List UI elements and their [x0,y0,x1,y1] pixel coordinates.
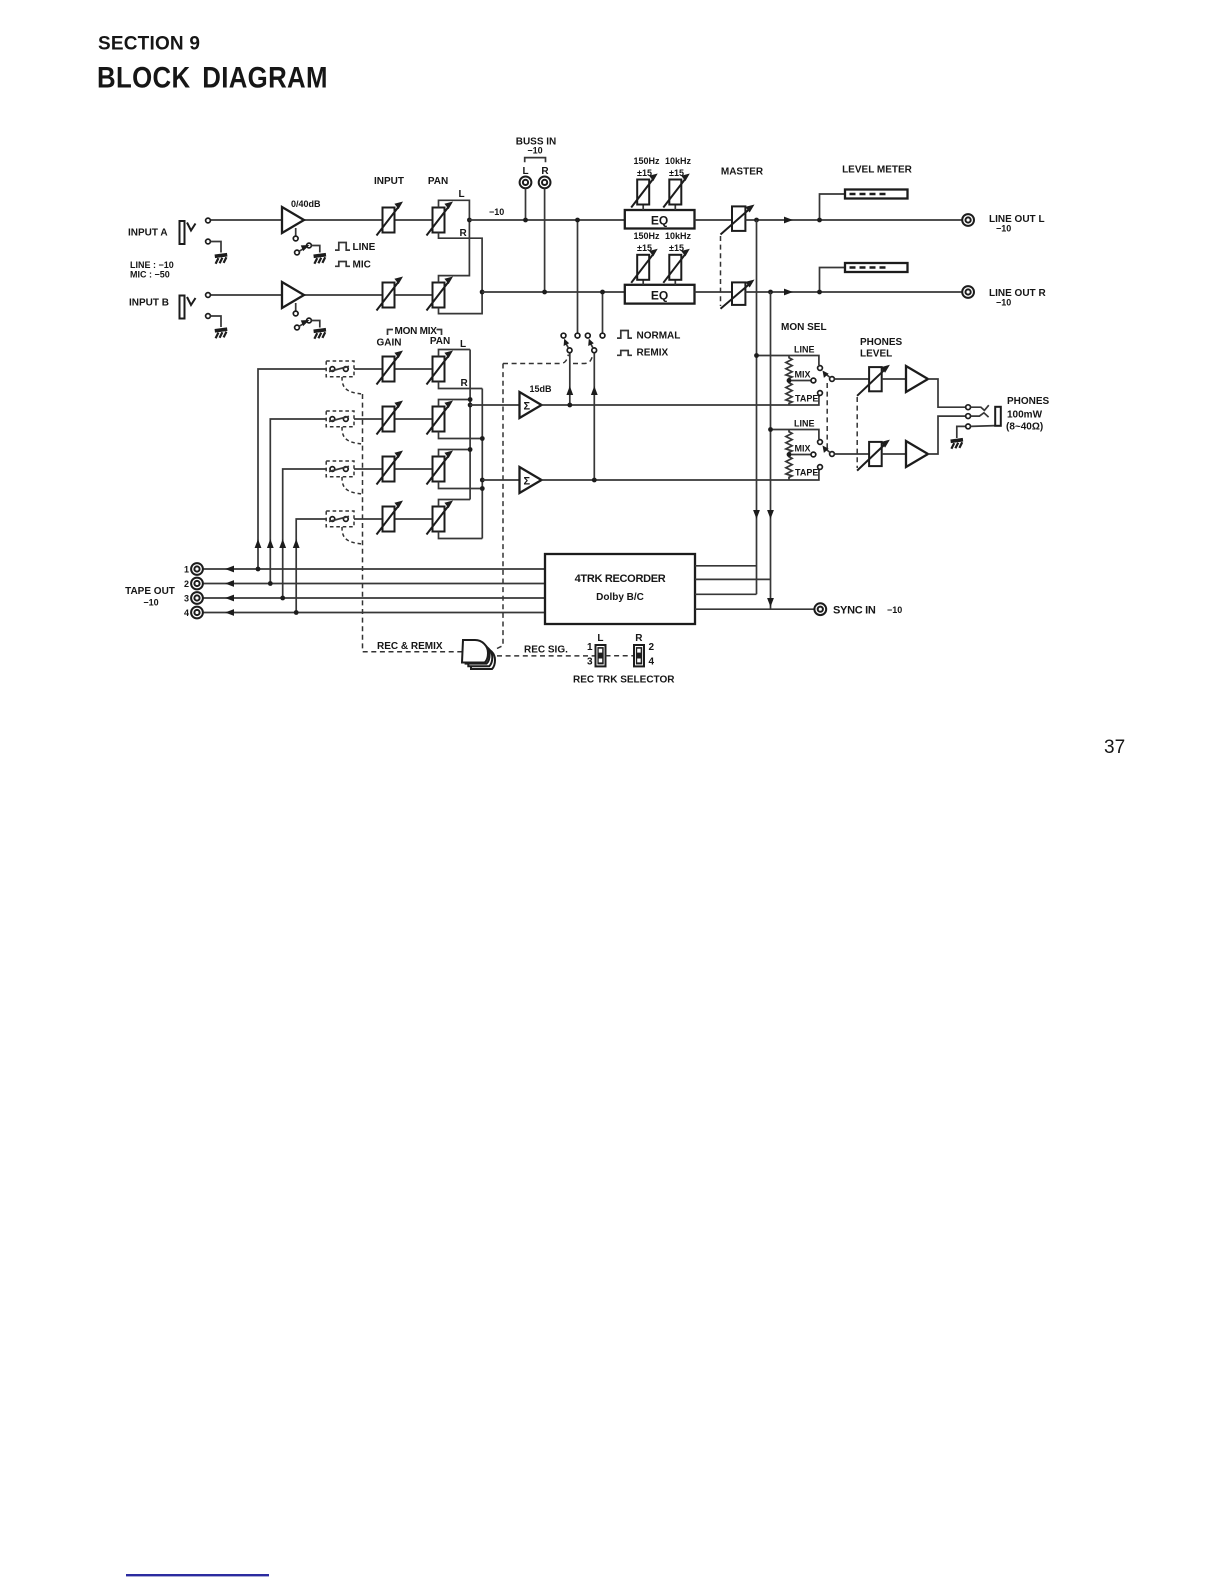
svg-text:LEVEL METER: LEVEL METER [842,165,913,176]
svg-text:−10: −10 [887,605,902,615]
svg-text:−10: −10 [527,146,542,156]
ground below input A [215,255,227,264]
mon sel R divider resistor upper [786,430,792,455]
svg-text:TAPE: TAPE [795,394,818,404]
svg-text:INPUT A: INPUT A [128,228,168,239]
sum amp R [520,467,542,493]
svg-text:−10: −10 [996,298,1011,308]
resistor top joints [787,378,792,383]
input jack B tip contact [206,293,211,298]
svg-text:BLOCK DIAGRAM: BLOCK DIAGRAM [97,61,328,94]
amp L out to tip contact [928,379,966,407]
svg-text:4: 4 [649,657,655,668]
phones jack body [995,407,1001,426]
mech chain vertical to rec&remix [363,394,464,652]
svg-text:INPUT B: INPUT B [129,298,169,309]
mon switch box 1 [326,361,354,377]
mech link box4 to chain [342,527,363,544]
svg-text:−10: −10 [143,598,158,608]
EQ R pot 10kHz [674,279,676,285]
svg-text:PAN: PAN [428,176,448,187]
node: R bus start [480,290,485,295]
wire EQ L to master fader [695,219,733,221]
ground below input B [215,329,227,338]
svg-text:REC TRK SELECTOR: REC TRK SELECTOR [573,675,675,686]
master fader L [732,206,745,231]
phones amp R [906,441,928,467]
svg-text:REC & REMIX: REC & REMIX [377,641,443,652]
input jack A tip contact [206,218,211,223]
sleeve wire from ground [957,426,966,438]
svg-text:INPUT: INPUT [374,176,404,187]
mic/line amp B [282,282,304,308]
NORMAL pulse legend [617,331,632,339]
svg-text:±15: ±15 [637,243,652,253]
amp R out to ring contact [928,416,966,454]
svg-text:R: R [635,633,643,644]
svg-text:150Hz: 150Hz [633,156,660,166]
node: L bus start [467,218,472,223]
node L to recorder feed [754,218,759,223]
svg-text:−10: −10 [996,224,1011,234]
amp A control contact [293,236,298,241]
svg-text:4: 4 [184,608,189,618]
master gang dashed link [720,236,722,306]
svg-text:4TRK RECORDER: 4TRK RECORDER [575,573,666,585]
mon sel R divider resistor lower [786,455,792,480]
EQ R block [625,285,695,304]
svg-text:1: 1 [587,642,593,653]
svg-text:±15: ±15 [669,243,684,253]
R line master to line out [745,291,962,293]
4TRK RECORDER box [545,554,695,624]
pole R [592,348,597,353]
mon sel L divider resistor upper [786,356,792,381]
mon pan pot 2 [427,401,454,435]
mon pan2 L frame [439,400,471,407]
svg-text:SYNC IN: SYNC IN [833,605,876,617]
REMIX pulse legend [617,351,632,356]
EQ L pot 150Hz [642,204,644,210]
mon switch box 3 [326,461,354,477]
ground below gain switch B [314,330,326,339]
gain switch B [295,325,300,330]
mon pan1 L frame [439,350,471,357]
buss in R connector [539,177,551,189]
rec trk switch R [634,645,644,666]
sum amp L (15dB) [520,392,542,418]
label MON MIX with brackets [388,330,394,336]
svg-text:R: R [460,228,468,239]
meter L body [845,190,908,199]
recorder input line 2 from R [695,578,771,580]
tape out line 3 [203,597,546,599]
svg-text:REC SIG.: REC SIG. [524,645,568,656]
phones level pot R [869,442,882,466]
pan pot B [427,277,454,311]
mon gain wires row4 [354,518,383,520]
input jack B sleeve contact and wire [206,314,211,319]
mon sel gang dashed [826,383,828,450]
wire pole L to phones pot [835,378,870,380]
mon sel R TAPE contact [818,465,823,470]
mon gain wires row1 [354,368,383,370]
input jack A body [180,221,185,244]
wire amp B to input pot [304,294,383,296]
master L feed-down vertical [756,220,758,594]
wire input B jack to amp [211,294,283,296]
svg-text:3: 3 [184,594,189,604]
sum amp L input wire [470,404,519,406]
mon sel L pole and arm [830,377,835,382]
wire input A jack to amp [211,219,283,221]
svg-text:LINE: LINE [794,419,815,429]
arrow on L line [784,217,793,224]
svg-text:PAN: PAN [430,336,450,347]
svg-text:MIC: MIC [353,260,371,271]
svg-text:2: 2 [184,579,189,589]
dashed between switches [606,655,635,657]
mon pan4 L frame [439,500,471,507]
pan pot A [427,202,454,236]
L line master to line out [745,219,962,221]
wire input pot A to pan pot A [395,219,433,221]
svg-text:3: 3 [587,657,593,668]
blue footer rule [126,1574,269,1576]
wire input pot B to pan pot B [395,294,433,296]
amp B control contact [293,311,298,316]
mech link box2 to chain [342,427,363,444]
recorder input line 1 from L [695,565,757,567]
bracket over L R [525,158,546,163]
mon L line to mon sel [542,396,821,405]
amp B control stub [295,303,297,311]
buss in R stem [544,189,546,293]
mon gain pot 1 [377,351,404,385]
mon R bus vertical [481,389,483,539]
svg-text:MIX: MIX [795,370,811,380]
svg-text:L: L [597,633,603,644]
mon pan pot 1 [427,351,454,385]
svg-text:Dolby B/C: Dolby B/C [596,592,644,603]
meter R branch [820,268,846,293]
EQ L block [625,210,695,229]
mon R line to mon sel [542,470,821,480]
wire pot L to amp [882,378,906,380]
input jack B body [180,296,185,319]
ground below gain switch A [314,255,326,264]
mon pan3 R frame [439,482,483,489]
remix contact open R [585,333,590,338]
svg-text:±15: ±15 [637,168,652,178]
mon pan pot 3 [427,451,454,485]
gain switch A [295,250,300,255]
mon sel R MIX tap [789,454,811,456]
mon sel R pole and arm [830,452,835,457]
pan B L output frame [439,220,470,283]
mon gain pot 2 [377,401,404,435]
mon sel R LINE contact [818,440,823,445]
svg-text:TAPE OUT: TAPE OUT [125,586,175,597]
svg-text:10kHz: 10kHz [665,231,692,241]
pan A R output frame [439,233,483,293]
svg-text:±15: ±15 [669,168,684,178]
mon sel L MIX tap [789,380,811,382]
tape return tap 1 riser [258,369,326,569]
pan A L output frame [439,200,470,220]
line out R connector [962,286,974,298]
MIC pulse legend [335,262,350,267]
master R feed-down vertical [770,292,772,609]
R bus wire to EQ [482,291,625,293]
riser to remix pole R [593,353,595,481]
amp A control stub [295,228,297,236]
drop from R bus to remix switch [602,292,604,333]
mon gain wires row3 [354,468,383,470]
mon L bus vertical [469,350,471,500]
tape out line 4 [203,612,546,614]
master fader R [732,282,745,305]
arrow on R line [784,289,793,296]
mon pan3 L frame [439,450,471,457]
normal contact R (from R bus) [600,333,605,338]
EQ L pot 10kHz [674,204,676,210]
phones pots gang dashed [856,397,858,468]
ground at phones jack [951,440,963,449]
tip contact [966,405,971,410]
tape out connector 3 [191,592,203,604]
tape return tap 4 riser [296,519,326,613]
mon pan4 R frame [439,532,483,539]
svg-text:MIX: MIX [795,444,811,454]
svg-text:TAPE: TAPE [795,468,818,478]
sum amp R input wire [482,479,519,481]
svg-text:LINE: LINE [353,242,376,253]
svg-text:SECTION 9: SECTION 9 [98,34,200,55]
mon sel L LINE contact [818,366,823,371]
svg-text:0/40dB: 0/40dB [291,199,321,209]
svg-text:1: 1 [184,565,189,575]
svg-text:L: L [522,166,528,177]
recorder input line 3 from L [695,593,757,595]
svg-text:R: R [461,378,469,389]
svg-text:(8~40Ω): (8~40Ω) [1006,422,1043,433]
svg-text:LINE : −10: LINE : −10 [130,260,174,270]
sync in connector [814,603,826,615]
wire pole R to phones pot [835,453,870,455]
svg-text:150Hz: 150Hz [633,231,660,241]
input fader A [377,202,404,236]
mech link box3 to chain [342,477,363,494]
node buss L [523,218,528,223]
mon switch box 2 [326,411,354,427]
mon pan pot 4 [427,501,454,535]
wire EQ R to master fader [695,291,733,293]
buss in L connector [520,177,532,189]
svg-text:LEVEL: LEVEL [860,349,892,360]
svg-text:EQ: EQ [651,214,668,228]
wire amp A to input pot [304,219,383,221]
tape out connector 1 [191,563,203,575]
tape return tap 2 riser [270,419,326,584]
mon sel L divider resistor lower [786,381,792,406]
sleeve contact [966,424,971,429]
phones level pot L [869,367,882,391]
svg-text:MON SEL: MON SEL [781,322,827,333]
remix contact open L [561,333,566,338]
svg-text:10kHz: 10kHz [665,156,692,166]
node buss R [542,290,547,295]
sync line / input 4 [695,608,815,610]
svg-text:37: 37 [1104,737,1125,758]
svg-text:L: L [460,339,466,350]
svg-text:MIC : −50: MIC : −50 [130,270,170,280]
wire pot R to amp [882,453,906,455]
svg-text:MASTER: MASTER [721,167,764,178]
node R to recorder feed [768,290,773,295]
mon pan1 R frame [439,382,483,389]
tape out connector 4 [191,607,203,619]
svg-text:R: R [541,166,549,177]
tape out line 2 [203,583,546,585]
mon gain wires row2 [354,418,383,420]
svg-text:PHONES: PHONES [860,337,903,348]
L bus wire to EQ [469,219,624,221]
input fader B [377,277,404,311]
mon gain pot 4 [377,501,404,535]
mon sel L TAPE contact [818,391,823,396]
svg-text:PHONES: PHONES [1007,396,1050,407]
input jack A sleeve contact and wire [206,239,211,244]
meter R body [845,263,908,272]
tape return tap 3 riser [283,469,327,598]
dashed gang to rec&remix bus [503,355,569,364]
svg-text:LINE: LINE [794,345,815,355]
mon sel R LINE feed [771,430,819,440]
mon pan2 R frame [439,432,483,439]
rec gang gate stack [462,640,495,669]
svg-text:NORMAL: NORMAL [637,331,681,342]
EQ R pot 150Hz [642,279,644,285]
svg-text:Σ: Σ [524,401,531,413]
line out L connector [962,214,974,226]
meter L branch [820,194,846,220]
mon gain pot 3 [377,451,404,485]
normal contact L (from L bus) [575,333,580,338]
svg-text:L: L [459,189,465,200]
svg-text:−10: −10 [489,207,504,217]
dashed vertical to rec&remix gate [497,364,503,649]
pole L [567,348,572,353]
tape out line 1 [203,568,546,570]
tape out connector 2 [191,578,203,590]
riser to remix pole L [569,353,571,406]
rec trk switch L [596,645,606,666]
phones amp L [906,366,928,392]
svg-text:REMIX: REMIX [637,348,669,359]
svg-text:Σ: Σ [524,476,531,488]
pan B R output frame [439,292,483,314]
svg-text:2: 2 [649,642,655,653]
drop from L bus to remix switch [577,220,579,333]
svg-text:EQ: EQ [651,288,668,302]
svg-text:GAIN: GAIN [377,338,402,349]
ring contact [966,414,971,419]
LINE pulse legend [335,243,350,251]
mon sel L LINE feed [757,356,819,366]
dashed rec sig line [497,655,596,657]
svg-text:100mW: 100mW [1007,410,1043,421]
buss in L stem [525,189,527,221]
svg-text:15dB: 15dB [530,384,553,394]
mon switch box 4 [326,511,354,527]
mic/line amp A [282,207,304,233]
mech link box1 to chain [342,377,363,394]
